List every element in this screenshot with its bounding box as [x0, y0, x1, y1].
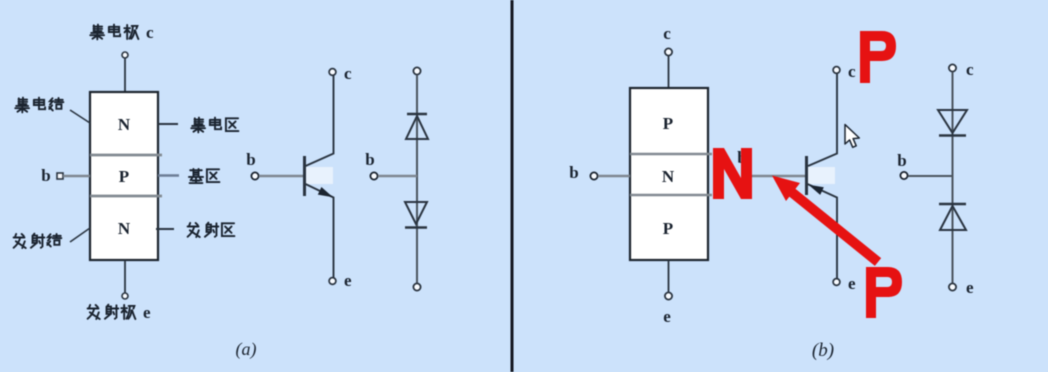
wire emitter lead (structure a)	[124, 260, 126, 293]
svg-text:(a): (a)	[236, 339, 257, 360]
red annotation arrow	[772, 176, 878, 263]
svg-text:c: c	[966, 60, 974, 79]
svg-text:(b): (b)	[812, 340, 834, 361]
node b terminal	[900, 172, 907, 179]
node e terminal	[413, 283, 420, 290]
node e terminal (structure b)	[665, 292, 672, 299]
svg-text:b: b	[41, 166, 50, 185]
junction line 1 (collector junction)	[90, 154, 162, 157]
node c terminal (structure a)	[122, 52, 128, 58]
svg-text:c: c	[344, 64, 352, 83]
node c terminal	[413, 67, 420, 74]
svg-text:N: N	[118, 115, 131, 134]
svg-text:P: P	[663, 219, 673, 238]
wire collector lead (structure a)	[124, 59, 126, 93]
diode equivalent (a)	[365, 67, 428, 290]
structure box b	[630, 88, 708, 260]
base bar	[303, 156, 306, 196]
svg-text:e: e	[344, 271, 352, 290]
node b terminal	[370, 172, 377, 179]
junction line 2	[630, 194, 712, 197]
node b terminal (structure a)	[57, 173, 63, 179]
diode D3 (pointing down)	[938, 110, 967, 133]
diode D4 (pointing up)	[939, 203, 966, 205]
label 发射极 e (emitter electrode)	[88, 303, 151, 322]
node b terminal (structure b)	[590, 172, 597, 179]
diode equivalent (b)	[897, 60, 974, 297]
wire	[952, 72, 954, 283]
panel divider line	[511, 0, 514, 372]
node c terminal (structure b)	[665, 48, 672, 55]
wire collector lead (structure b)	[668, 56, 670, 88]
wire base	[908, 175, 952, 177]
highlight band	[306, 167, 333, 184]
red annotation N	[713, 148, 752, 199]
wire base	[750, 175, 805, 177]
svg-text:N: N	[662, 167, 675, 186]
wire base	[259, 175, 303, 177]
mouse cursor	[845, 125, 859, 148]
structure box a	[90, 92, 158, 260]
svg-text:b: b	[246, 150, 255, 169]
svg-text:b: b	[897, 151, 906, 170]
label 基区 (base region) with dash	[158, 169, 219, 183]
wire base	[378, 175, 417, 177]
junction line 1	[630, 153, 712, 156]
svg-text:b: b	[569, 163, 578, 182]
node e terminal	[833, 279, 840, 286]
node e terminal	[329, 278, 336, 285]
label 发射区 (emitter region) with dash	[156, 223, 234, 237]
wire base lead (structure b)	[598, 175, 630, 177]
svg-text:b: b	[365, 150, 374, 169]
node e terminal (structure a)	[122, 293, 128, 299]
label 集电区 (collector region) with dash	[158, 118, 238, 133]
node c terminal	[833, 67, 840, 74]
node c terminal	[949, 64, 956, 71]
label 发射结 (emitter junction) with leader	[14, 228, 90, 248]
transistor Q1 symbol (NPN)	[246, 64, 352, 290]
svg-text:e: e	[143, 303, 151, 322]
highlight band	[808, 167, 835, 184]
svg-text:P: P	[663, 114, 673, 133]
svg-text:e: e	[848, 274, 856, 293]
wire emitter with arrow (PNP inward)	[808, 184, 838, 278]
wire	[416, 75, 418, 283]
wire emitter with arrow (NPN outward)	[306, 184, 334, 278]
label 集电极 c (collector electrode)	[90, 23, 154, 42]
node e terminal	[949, 283, 956, 290]
label 集电结 (collector junction) with leader	[15, 98, 90, 123]
junction line 2 (emitter junction)	[90, 195, 162, 198]
wire emitter lead (structure b)	[668, 260, 670, 292]
wire base lead (structure a)	[63, 175, 90, 177]
svg-text:c: c	[146, 23, 154, 42]
transistor Q2 symbol (PNP)	[737, 62, 856, 293]
svg-text:c: c	[663, 24, 671, 43]
node b terminal	[742, 172, 749, 179]
node c terminal	[329, 69, 336, 76]
svg-text:e: e	[966, 278, 974, 297]
svg-text:P: P	[119, 167, 129, 186]
svg-text:c: c	[848, 62, 856, 81]
diode D1 (pointing up)	[407, 113, 427, 115]
wire collector	[808, 74, 837, 167]
svg-text:N: N	[118, 219, 131, 238]
svg-text:e: e	[663, 307, 671, 326]
base bar	[805, 156, 808, 195]
red annotation P (bottom)	[866, 267, 902, 318]
wire collector	[306, 76, 334, 167]
node b terminal	[251, 172, 258, 179]
red annotation P (top)	[860, 31, 896, 83]
diode D2 (pointing down)	[405, 202, 427, 224]
